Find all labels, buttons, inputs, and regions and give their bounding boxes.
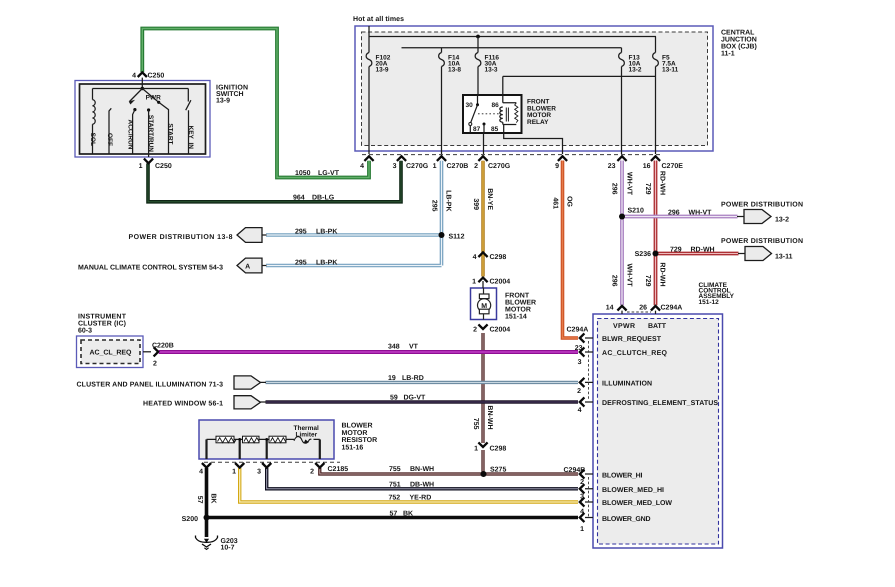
svg-text:M: M <box>481 303 487 310</box>
svg-text:1: 1 <box>232 469 236 476</box>
svg-text:C270B: C270B <box>447 163 469 170</box>
svg-text:13-11: 13-11 <box>775 254 793 261</box>
svg-text:Hot at all times: Hot at all times <box>353 15 404 23</box>
svg-text:BN-YE: BN-YE <box>486 188 493 210</box>
svg-text:4: 4 <box>199 469 203 476</box>
svg-text:BK: BK <box>210 493 217 503</box>
svg-text:MOTOR: MOTOR <box>505 307 531 314</box>
svg-text:752: 752 <box>389 494 401 501</box>
svg-text:13-3: 13-3 <box>485 67 498 74</box>
svg-text:VT: VT <box>409 344 419 351</box>
svg-text:JUNCTION: JUNCTION <box>721 37 757 44</box>
svg-text:YE-RD: YE-RD <box>410 494 432 501</box>
svg-text:CENTRAL: CENTRAL <box>721 30 755 37</box>
svg-text:WH-VT: WH-VT <box>626 172 633 196</box>
svg-text:C294A: C294A <box>661 305 683 312</box>
svg-text:729: 729 <box>644 183 651 195</box>
svg-text:729: 729 <box>644 275 651 287</box>
svg-text:3: 3 <box>580 493 584 500</box>
svg-text:BLOWER_HI: BLOWER_HI <box>602 473 643 480</box>
svg-text:C270G: C270G <box>488 163 511 170</box>
svg-text:964: 964 <box>293 195 305 202</box>
svg-text:RD-WH: RD-WH <box>659 171 666 195</box>
svg-text:2: 2 <box>474 163 478 170</box>
svg-text:755: 755 <box>472 418 479 430</box>
svg-text:13-2: 13-2 <box>629 67 642 74</box>
svg-text:CLUSTER (IC): CLUSTER (IC) <box>78 320 126 328</box>
svg-text:1: 1 <box>580 526 584 533</box>
svg-text:RD-WH: RD-WH <box>691 247 715 254</box>
svg-text:LB-PK: LB-PK <box>316 229 337 236</box>
svg-text:DB-LG: DB-LG <box>312 195 335 202</box>
svg-text:151-14: 151-14 <box>505 314 527 321</box>
svg-text:BOX (CJB): BOX (CJB) <box>721 43 757 51</box>
svg-text:295: 295 <box>431 200 438 212</box>
svg-text:OG: OG <box>566 196 573 207</box>
svg-text:C294B: C294B <box>564 467 586 474</box>
svg-text:59: 59 <box>390 395 398 402</box>
svg-text:C2004: C2004 <box>490 327 511 334</box>
svg-text:LB-RD: LB-RD <box>402 375 424 382</box>
svg-text:VPWR: VPWR <box>613 323 635 330</box>
svg-text:C270E: C270E <box>662 163 684 170</box>
svg-text:30: 30 <box>466 102 474 109</box>
svg-text:85: 85 <box>491 126 499 133</box>
svg-text:2: 2 <box>577 388 581 395</box>
svg-text:Limiter: Limiter <box>296 432 318 439</box>
svg-text:751: 751 <box>389 481 401 488</box>
svg-text:C250: C250 <box>155 163 172 170</box>
svg-text:START: START <box>167 123 174 144</box>
svg-text:1: 1 <box>474 446 478 453</box>
svg-text:13-9: 13-9 <box>216 98 230 105</box>
svg-text:LB-PK: LB-PK <box>316 260 337 267</box>
svg-text:151-16: 151-16 <box>342 444 364 451</box>
svg-text:DEFROSTING_ELEMENT_STATUS: DEFROSTING_ELEMENT_STATUS <box>602 400 718 407</box>
svg-text:1: 1 <box>472 279 476 286</box>
svg-text:23: 23 <box>608 163 616 170</box>
svg-text:BK: BK <box>403 511 413 518</box>
svg-text:INSTRUMENT: INSTRUMENT <box>78 314 127 321</box>
svg-text:87: 87 <box>473 126 481 133</box>
svg-text:1: 1 <box>139 163 143 170</box>
svg-text:3: 3 <box>578 359 582 366</box>
svg-text:BLOWER: BLOWER <box>342 423 373 430</box>
svg-text:DG-VT: DG-VT <box>404 395 427 402</box>
svg-text:13-11: 13-11 <box>662 67 679 74</box>
svg-text:4: 4 <box>132 73 136 80</box>
svg-text:POWER DISTRIBUTION 13-8: POWER DISTRIBUTION 13-8 <box>129 234 233 241</box>
svg-text:S112: S112 <box>449 234 465 241</box>
svg-text:C298: C298 <box>490 446 507 453</box>
svg-text:POWER DISTRIBUTION: POWER DISTRIBUTION <box>721 202 803 209</box>
svg-text:2: 2 <box>473 327 477 334</box>
svg-text:151-12: 151-12 <box>699 299 720 306</box>
svg-text:WH-VT: WH-VT <box>626 264 633 288</box>
svg-text:RELAY: RELAY <box>527 119 549 126</box>
svg-text:C298: C298 <box>490 254 507 261</box>
svg-text:296: 296 <box>611 275 618 287</box>
svg-text:3: 3 <box>393 163 397 170</box>
svg-text:AC_CLUTCH_REQ: AC_CLUTCH_REQ <box>602 350 668 357</box>
svg-text:DB-WH: DB-WH <box>410 481 434 488</box>
svg-text:KEY_IN: KEY_IN <box>187 126 194 150</box>
svg-text:HEATED WINDOW 56-1: HEATED WINDOW 56-1 <box>143 401 223 408</box>
svg-text:S236: S236 <box>635 251 651 258</box>
svg-text:CLUSTER AND PANEL ILLUMINATION: CLUSTER AND PANEL ILLUMINATION 71-3 <box>77 382 224 389</box>
svg-text:C294A: C294A <box>567 327 589 334</box>
svg-text:LB-PK: LB-PK <box>445 190 452 211</box>
svg-text:POWER DISTRIBUTION: POWER DISTRIBUTION <box>721 238 803 245</box>
svg-text:57: 57 <box>390 511 398 518</box>
svg-text:ILLUMINATION: ILLUMINATION <box>602 380 652 387</box>
svg-text:1050: 1050 <box>295 170 311 177</box>
svg-text:C2185: C2185 <box>328 466 349 473</box>
svg-text:OFF: OFF <box>106 133 113 146</box>
svg-text:13-8: 13-8 <box>448 67 461 74</box>
svg-text:ACC/RUN: ACC/RUN <box>127 120 134 150</box>
svg-text:4: 4 <box>473 254 477 261</box>
svg-text:AC_CL_REQ: AC_CL_REQ <box>90 350 133 357</box>
svg-text:4: 4 <box>578 407 582 414</box>
svg-text:BLWR_REQUEST: BLWR_REQUEST <box>602 336 662 343</box>
svg-text:4: 4 <box>580 509 584 516</box>
svg-text:399: 399 <box>472 198 479 210</box>
svg-text:10-7: 10-7 <box>221 545 235 552</box>
svg-text:S275: S275 <box>490 466 506 473</box>
svg-text:MANUAL CLIMATE CONTROL SYSTEM: MANUAL CLIMATE CONTROL SYSTEM 54-3 <box>78 265 223 272</box>
svg-text:RESISTOR: RESISTOR <box>342 437 378 444</box>
svg-text:RD-WH: RD-WH <box>659 262 666 286</box>
svg-text:START/RUN: START/RUN <box>147 115 154 152</box>
svg-text:60-3: 60-3 <box>78 328 92 335</box>
svg-text:C250: C250 <box>148 73 165 80</box>
svg-text:729: 729 <box>670 247 682 254</box>
svg-text:86: 86 <box>492 102 500 109</box>
svg-text:461: 461 <box>552 197 559 209</box>
svg-text:57: 57 <box>196 496 203 504</box>
svg-text:19: 19 <box>388 375 396 382</box>
svg-text:SOL: SOL <box>89 133 96 146</box>
svg-text:4: 4 <box>360 163 364 170</box>
svg-text:FRONT: FRONT <box>505 293 530 300</box>
svg-text:14: 14 <box>606 305 614 312</box>
svg-text:23: 23 <box>575 345 583 352</box>
svg-text:13-9: 13-9 <box>376 67 389 74</box>
svg-text:WH-VT: WH-VT <box>689 210 713 217</box>
svg-text:296: 296 <box>668 210 680 217</box>
svg-text:C220B: C220B <box>152 343 174 350</box>
svg-text:S210: S210 <box>628 208 644 215</box>
svg-text:13-2: 13-2 <box>775 217 789 224</box>
svg-text:BLOWER_GND: BLOWER_GND <box>602 516 651 523</box>
svg-text:BN-WH: BN-WH <box>410 466 434 473</box>
svg-text:348: 348 <box>388 344 400 351</box>
svg-text:BLOWER: BLOWER <box>505 300 536 307</box>
svg-text:BLOWER_MED_LOW: BLOWER_MED_LOW <box>602 500 672 507</box>
svg-text:2: 2 <box>580 479 584 486</box>
svg-text:BN-WH: BN-WH <box>486 405 493 429</box>
svg-text:LG-VT: LG-VT <box>318 170 340 177</box>
svg-text:A: A <box>245 263 250 270</box>
svg-text:295: 295 <box>295 229 307 236</box>
svg-text:C270G: C270G <box>406 163 429 170</box>
svg-text:3: 3 <box>257 469 261 476</box>
svg-text:9: 9 <box>555 163 559 170</box>
svg-text:2: 2 <box>310 469 314 476</box>
svg-text:PWR: PWR <box>146 94 161 101</box>
svg-text:MOTOR: MOTOR <box>342 430 368 437</box>
svg-text:2: 2 <box>153 361 157 368</box>
svg-text:11-1: 11-1 <box>721 51 735 58</box>
svg-text:755: 755 <box>389 466 401 473</box>
svg-text:296: 296 <box>611 183 618 195</box>
svg-text:BLOWER_MED_HI: BLOWER_MED_HI <box>602 487 664 494</box>
svg-text:295: 295 <box>295 260 307 267</box>
svg-text:1: 1 <box>433 163 437 170</box>
svg-text:16: 16 <box>643 163 651 170</box>
svg-text:BATT: BATT <box>648 323 667 330</box>
svg-text:26: 26 <box>639 305 647 312</box>
svg-text:C2004: C2004 <box>490 279 511 286</box>
svg-text:S200: S200 <box>182 516 198 523</box>
